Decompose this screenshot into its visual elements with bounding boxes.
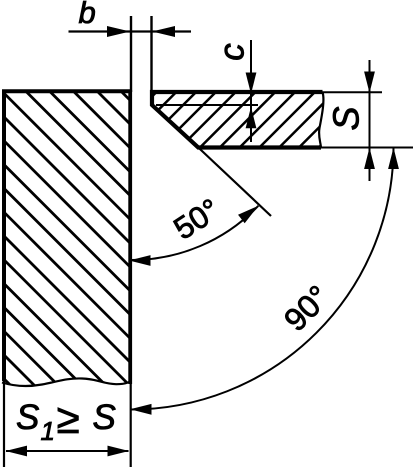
bevel extension line	[198, 148, 271, 217]
left plate left edge extension below break	[3, 381, 5, 467]
arrow 50 arc left end (points left)	[129, 255, 151, 266]
50 degree arc	[131, 206, 258, 260]
left plate right edge extension below break	[130, 384, 132, 467]
dimension line c	[250, 40, 252, 142]
svg-text:b: b	[79, 0, 96, 30]
arrow 90 arc top end (points up)	[388, 148, 399, 170]
top plate top edge extension	[322, 91, 382, 93]
arrow 90 arc bottom end (points left)	[130, 404, 152, 415]
c extension line at root face level	[156, 104, 258, 106]
top plate hatching	[145, 0, 335, 321]
left plate break wavy line	[2, 378, 131, 386]
left plate hatching	[0, 0, 140, 467]
svg-text:S: S	[326, 106, 367, 130]
arrow b left (points right)	[107, 26, 130, 37]
svg-text:90°: 90°	[277, 278, 337, 338]
left plate right edge (thick)	[128, 90, 132, 384]
arrow c top (points down)	[246, 73, 257, 95]
bottom dimension line S1>=S	[6, 450, 129, 452]
arrow c bottom (points up)	[246, 107, 257, 129]
dimension line b	[69, 30, 192, 32]
left plate outline	[4, 91, 130, 381]
arrow bottom left (points left)	[6, 446, 28, 457]
svg-text:S1≥S: S1≥S	[16, 395, 116, 446]
svg-text:c: c	[212, 43, 251, 61]
arrow 50 arc right end (points up-right)	[238, 202, 262, 224]
arrow S bottom (points up)	[364, 148, 375, 170]
top plate outline (top edge, root face, bevel, bottom edge)	[152, 92, 323, 148]
left gap extension line up (x=131)	[130, 16, 132, 92]
90 degree arc	[131, 148, 394, 410]
arrow bottom right (points right)	[108, 446, 130, 457]
dimension line S	[369, 60, 371, 181]
arrow b right (points left)	[152, 26, 175, 37]
arrow S top (points down)	[364, 72, 375, 94]
top plate break wavy line	[319, 92, 323, 148]
right gap extension line up (x=152.5)	[150, 16, 152, 92]
top plate bottom edge extension	[321, 147, 413, 149]
